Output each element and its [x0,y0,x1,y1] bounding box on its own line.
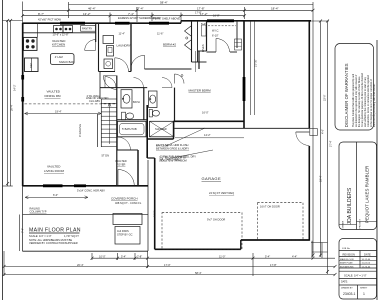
svg-text:17'-8": 17'-8" [197,6,205,10]
pantry box [81,26,96,32]
left tick bottom [3,185,13,187]
svg-text:SNACK BAR: SNACK BAR [59,60,74,64]
svg-text:5'-4": 5'-4" [265,254,270,258]
svg-text:MAIN FLOOR: MAIN FLOOR [340,258,354,261]
svg-text:5'-0": 5'-0" [201,22,206,26]
svg-text:4' LAM: 4' LAM [55,55,63,59]
svg-text:VAULTED: VAULTED [115,159,127,163]
steps box2 [115,227,140,245]
svg-text:4' RAILING: 4' RAILING [78,124,82,137]
stair rail inner [100,99,102,147]
svg-text:4'-4": 4'-4" [292,254,297,258]
vaulted ceiling dashed line [25,103,117,105]
mbath toilet bowl [152,110,159,116]
master east window [243,77,246,101]
svg-text:W.I.C.: W.I.C. [212,29,219,33]
sheet left border [2,0,4,300]
counter edge [23,32,96,34]
svg-text:11-02-04: 11-02-04 [362,263,371,265]
svg-text:same before proceeding with wo: same before proceeding with work shown. [373,83,376,127]
mbath vanity [149,91,158,108]
svg-text:14'-2": 14'-2" [204,133,211,137]
laundry door leaf+arc [115,58,129,72]
svg-text:DRAWN BY: DRAWN BY [341,287,353,290]
svg-text:8'-7": 8'-7" [38,12,44,16]
OH door dashed box left [162,213,242,250]
svg-text:7'-4": 7'-4" [21,228,25,233]
svg-text:SCALE: 1/4" = 1'-0": SCALE: 1/4" = 1'-0" [344,274,367,278]
svg-text:the designer. No warranty is m: the designer. No warranty is made of the… [358,76,361,127]
svg-text:KITCHEN: KITCHEN [52,43,65,47]
mbath east wall [174,88,176,122]
service door stoop [310,129,318,136]
stair direction arrow [109,103,111,144]
closet front wall [191,21,193,62]
svg-text:20'-4": 20'-4" [77,263,84,267]
foyer north wall [117,149,138,151]
svg-text:1: 1 [363,292,365,296]
OH door dashed box right [258,203,304,240]
svg-text:LINEN: LINEN [201,44,205,52]
svg-text:16'x7' OH DOOR: 16'x7' OH DOOR [260,205,280,209]
foyer east wall [137,150,139,186]
svg-text:COVERED PORCH: COVERED PORCH [111,197,138,201]
svg-text:FOYER: FOYER [117,163,126,167]
hall-bdrm2 south wall [145,68,192,70]
svg-text:DINING RM: DINING RM [45,94,62,98]
treads [101,102,117,104]
porch dim line [25,196,88,198]
garage east wall lower [308,146,310,241]
top dimension line tier2 [23,9,314,11]
front door arc [118,170,134,186]
svg-text:COLUMN TYP: COLUMN TYP [30,210,47,214]
bath south wall [147,138,173,140]
mbath door arc [162,78,172,88]
garage west wall [154,158,156,249]
svg-text:MAIN FLOOR PLAN: MAIN FLOOR PLAN [29,228,81,234]
steps box1 [113,214,142,225]
bottom ext d [147,251,149,268]
washer [107,46,114,57]
svg-text:11'-0": 11'-0" [219,254,225,258]
bath-garage wall [146,105,148,158]
stair right wall [116,76,118,186]
top wall right section [181,20,311,22]
landing line [101,98,117,100]
svg-text:11'-4": 11'-4" [119,32,125,36]
wic east wall [236,21,238,48]
extension line B [68,2,70,18]
svg-text:MASTER BDRM: MASTER BDRM [189,89,212,93]
svg-text:22'-0": 22'-0" [323,94,327,101]
svg-text:23403-1: 23403-1 [343,292,356,296]
service door leaf [296,131,310,133]
left dim line 1 [7,21,9,187]
disclaimer box [335,44,374,131]
right dim line 2 [327,21,329,274]
svg-text:BATH: BATH [133,100,140,104]
svg-text:17'-8": 17'-8" [270,263,277,267]
revision box [339,239,377,300]
left tick top [3,20,23,22]
left wall window1 [21,75,24,80]
bottom ext left [3,251,5,276]
svg-text:DATE: DATE [364,252,371,256]
closet bifold chevron 2 [185,40,192,50]
counter side edge [36,23,38,37]
mbath toilet tank [149,110,152,117]
svg-text:12-20-04: 12-20-04 [362,266,372,268]
sink basins [55,28,71,31]
extension line D [136,7,138,22]
porch floor edge [23,214,149,216]
landing west wall [99,72,101,100]
bottom ext f [311,241,313,259]
right tick [311,20,329,22]
living south window1 [43,184,63,187]
bottom ext b [117,253,119,260]
svg-text:BETWEEN GRGE & LNDRY: BETWEEN GRGE & LNDRY [156,146,189,150]
disclaimer small print [352,72,376,127]
master door leaf+arc [175,74,185,84]
left wall [22,23,24,186]
left wall window2 [21,97,24,102]
porch bottom line [23,250,149,252]
svg-text:PANTRY: PANTRY [82,27,93,31]
svg-text:STEP BY GC: STEP BY GC [117,233,133,237]
svg-text:408 SQ FT - CONC FL: 408 SQ FT - CONC FL [115,201,142,205]
bottom cell divider [357,285,359,299]
sheet right border [376,40,378,300]
svg-text:14'-2": 14'-2" [13,84,17,91]
garage front jog vertical [240,240,242,249]
svg-text:VAULTED: VAULTED [47,165,61,169]
svg-text:42"x60" PICT WDW: 42"x60" PICT WDW [38,18,62,22]
bath1 toilet tank [122,112,126,120]
dryer [104,59,113,69]
svg-text:5' BATHTUB: 5' BATHTUB [122,127,137,131]
laundry cabinet [103,36,114,44]
svg-text:4' RL WALL: 4' RL WALL [87,94,101,98]
main title underline [29,232,80,234]
svg-text:7'-4": 7'-4" [128,12,134,16]
stair rail outer [97,114,99,147]
top wall left section [23,22,182,24]
extension line F [180,13,182,22]
svg-text:GARAGE: GARAGE [202,176,222,181]
laundry-bdrm2 wall [130,23,132,71]
dimension slash ticks [3,9,337,276]
svg-text:LAUNDRY: LAUNDRY [117,44,131,48]
living south window2 [74,184,86,187]
wic south wall [207,51,217,53]
svg-text:2'-8": 2'-8" [137,254,142,258]
svg-text:DATE:: DATE: [341,281,348,284]
garage interior dim line v1 [250,21,252,115]
svg-text:58'-4": 58'-4" [195,271,202,275]
range [24,37,38,50]
sink box2 [63,26,73,33]
hall door arc3 [118,137,131,150]
pantry door arc [85,40,96,51]
svg-text:11'-6": 11'-6" [157,32,163,36]
left porch dim [19,215,21,252]
svg-text:SCALE: 1/4" = 1'-0": SCALE: 1/4" = 1'-0" [29,234,52,238]
se dim h [312,251,328,253]
laundry west wall [98,23,100,71]
svg-text:4'-0": 4'-0" [321,129,325,134]
tub [118,121,147,137]
se dim v2 [321,243,323,259]
owner/project box [339,142,377,230]
wic door arc [216,39,230,53]
svg-text:10'-0": 10'-0" [99,254,106,258]
svg-text:to the designer at once for pr: to the designer at once for proper corre… [370,79,373,127]
svg-text:4x4 PADS: 4x4 PADS [117,229,129,233]
svg-text:CLG ABV: CLG ABV [89,99,100,103]
extension line E [151,13,153,22]
garage interior dim line v2 [254,21,256,115]
hall south wall [100,87,147,89]
svg-text:27'-4": 27'-4" [329,140,333,147]
top dimension line tier1 [69,4,314,6]
laundry south wall [99,71,116,73]
bdrm2 window [207,19,234,22]
bottom ext a [91,253,93,260]
refrigerator [25,58,39,72]
living dim arrow [25,112,28,115]
svg-text:REF: REF [29,62,33,68]
linen shelves [202,25,207,36]
linen south wall [198,50,207,52]
svg-text:10-12-04: 10-12-04 [362,259,372,261]
svg-text:SHOWER: SHOWER [155,127,167,131]
bath-garage connector wall [147,157,155,159]
svg-text:16'-0": 16'-0" [202,111,209,115]
svg-text:construction. Errors or omissi: construction. Errors or omissions shall … [367,74,370,127]
svg-text:6'-10": 6'-10" [212,34,219,38]
shower [150,121,175,137]
svg-text:6'-0": 6'-0" [53,193,58,197]
bottom ext e [252,253,254,276]
garage front wall right bay [241,239,309,241]
svg-text:1,747 SQ FT: 1,747 SQ FT [64,234,79,238]
svg-text:OWNER: OWNER [343,220,345,228]
revision table lines [339,250,377,252]
closet bifold chevron 1 [185,26,192,36]
svg-text:5T DN: 5T DN [102,154,110,158]
svg-text:18'-4": 18'-4" [271,6,279,10]
porch left edge [22,186,24,251]
svg-text:58'-4": 58'-4" [160,1,168,5]
svg-text:SHEET: SHEET [360,288,368,290]
living dim line [25,113,102,115]
bath wall divider [143,88,145,120]
bottom dim line 2 [4,266,335,268]
svg-text:The plans furnished herewith w: The plans furnished herewith were prepar… [352,73,355,127]
bath1 sink [123,94,130,103]
svg-text:BSMT PLAN: BSMT PLAN [340,262,353,265]
svg-text:REVISION: REVISION [343,252,356,256]
master bdrm east wall [243,21,245,129]
note leader 1 [166,128,205,146]
island [50,54,74,65]
top dimension line tier3 [23,15,245,17]
svg-text:JOB No.: JOB No. [342,248,351,250]
master west wall [198,51,200,69]
svg-text:5'x14' CONC. HDR ABV: 5'x14' CONC. HDR ABV [77,189,105,193]
svg-text:17'-4": 17'-4" [136,6,144,10]
svg-text:17'-0": 17'-0" [164,263,171,267]
baths mid wall [117,119,147,121]
garage front wall left bay [155,248,241,250]
master bdrm south wall [174,120,245,122]
svg-text:VERIFIED BY CONTRACTOR/SUPPLIE: VERIFIED BY CONTRACTOR/SUPPLIER [29,241,78,245]
svg-text:29'-4": 29'-4" [10,104,14,111]
top wall jog [180,21,182,23]
svg-text:17'-0": 17'-0" [153,210,157,217]
svg-text:PROJECT: PROJECT [360,218,362,228]
right dim line 1 [320,21,322,257]
master shelves [235,39,242,50]
svg-text:WL, TAPED WALL: WL, TAPED WALL [160,158,182,162]
garage east wall [308,21,310,129]
svg-text:DISCLAIMER OF WARRANTIES: DISCLAIMER OF WARRANTIES [344,63,349,127]
living room south wall [23,185,149,187]
revision v divider [359,251,361,269]
svg-text:5'-4": 5'-4" [121,254,126,258]
se tick [311,242,328,244]
hall dim arrow [195,51,197,72]
svg-text:24 SQ FT VENT REQ: 24 SQ FT VENT REQ [209,191,234,195]
svg-text:PEQUOT LAKES RAMBLER: PEQUOT LAKES RAMBLER [364,166,369,223]
hall east wall [206,21,208,51]
bath-master jog wall [173,121,175,139]
bath1 door arc [134,78,144,88]
extension line A [22,2,24,24]
svg-text:and verified by the contractor: and verified by the contractor prior to … [364,76,367,127]
linen wall [197,21,199,62]
sink box1 [54,26,64,33]
extension line G [244,7,246,19]
svg-text:16'-8": 16'-8" [213,14,220,18]
owner/project divider [356,142,358,230]
svg-text:LIVING ROOM: LIVING ROOM [44,169,65,173]
svg-text:BDRM #2: BDRM #2 [163,43,176,47]
svg-text:21'-10": 21'-10" [253,59,257,67]
wic shelf dashed [208,25,236,27]
svg-text:18'-4": 18'-4" [319,175,323,182]
svg-text:17'-8": 17'-8" [195,11,202,15]
closet knob [186,37,188,39]
revision rows [340,258,371,268]
note leader 2 [172,150,213,158]
svg-text:10'-6" x 12'-8": 10'-6" x 12'-8" [53,32,69,36]
extension line right [312,2,314,257]
svg-text:are intended to be reproduced: are intended to be reproduced only with … [355,74,358,127]
dining window2 [149,22,169,25]
bottom dim line 1 [92,257,335,259]
basement door arc [103,76,117,90]
dining window1 [115,22,130,25]
svg-text:PLANT SHELF ABOVE: PLANT SHELF ABOVE [153,17,180,21]
svg-text:JDA BUILDERS: JDA BUILDERS [347,187,353,224]
extension line C [109,13,111,24]
kitchen window [60,22,85,25]
pantry wall [95,23,97,42]
svg-text:VAULTED: VAULTED [47,90,61,94]
svg-text:for any particular purpose. Al: for any particular purpose. All dims mus… [361,72,364,127]
mbath sink [150,95,156,103]
bottom dim line 3 [4,274,335,276]
bath1 toilet bowl [126,113,134,119]
bdrm2 door leaf+arc [131,55,145,69]
basement door leaf+arc [105,77,116,88]
left dim line 2 [10,21,12,187]
svg-text:ELEVATIONS: ELEVATIONS [340,265,354,268]
garage dim line 14-2 [175,137,244,139]
porch east line [147,160,149,251]
service door arc [296,132,310,146]
owner box header lines [339,224,357,226]
bottom ext c [134,253,136,260]
svg-text:9'x7' OH DOOR: 9'x7' OH DOOR [207,218,225,222]
svg-text:19'-4": 19'-4" [55,110,62,114]
closet bottom [192,61,207,63]
svg-text:46'-4": 46'-4" [88,6,96,10]
svg-text:13'-2": 13'-2" [83,12,91,16]
bath1 vanity [121,90,132,108]
